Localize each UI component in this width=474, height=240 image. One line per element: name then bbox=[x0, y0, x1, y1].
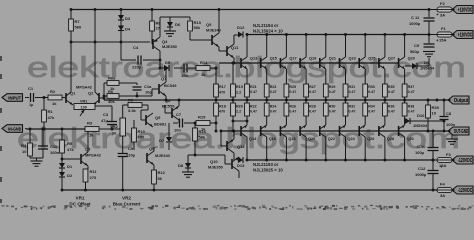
svg-text:Q20: Q20 bbox=[308, 137, 315, 141]
capacitor C1 bbox=[30, 93, 32, 102]
svg-text:OUT-GND: OUT-GND bbox=[454, 129, 469, 135]
wire Q16 collector bbox=[266, 137, 268, 160]
resistor R3 bbox=[85, 127, 99, 132]
diode D1 bbox=[59, 163, 65, 168]
resistor R26 bbox=[285, 100, 287, 103]
svg-text:3A: 3A bbox=[440, 193, 445, 198]
wire Q11 collector to D12 bbox=[233, 35, 235, 44]
wire R30 to Q22 emitter bbox=[325, 116, 327, 125]
svg-text:47k: 47k bbox=[48, 115, 55, 120]
wire R2 to Q1 base bbox=[62, 97, 66, 99]
svg-text:D2: D2 bbox=[67, 173, 73, 178]
svg-text:R37: R37 bbox=[408, 85, 415, 89]
transistor Q30 bbox=[398, 126, 400, 136]
svg-text:NJL21194 or: NJL21194 or bbox=[253, 23, 279, 28]
wire Q2 base to feedback node bbox=[99, 97, 104, 99]
resistor R23 bbox=[264, 84, 269, 97]
capacitor C5 bbox=[122, 136, 124, 153]
svg-text:10: 10 bbox=[432, 111, 437, 116]
wire Q11 emitter to base rail bbox=[233, 58, 235, 63]
svg-text:680: 680 bbox=[138, 135, 145, 140]
svg-text:C5: C5 bbox=[128, 146, 134, 151]
wire D9 branch bbox=[405, 65, 412, 67]
svg-text:47µ: 47µ bbox=[101, 118, 108, 123]
fuse F1 bbox=[429, 34, 437, 36]
resistor R12 bbox=[152, 170, 157, 184]
potentiometer VR1 bbox=[74, 104, 95, 110]
wire bottom output base rail bbox=[222, 130, 448, 132]
svg-text:R38: R38 bbox=[408, 105, 415, 109]
wire Q25 emitter bbox=[364, 69, 366, 84]
wire R33 to output rail bbox=[364, 97, 366, 100]
svg-text:1k: 1k bbox=[52, 101, 57, 106]
svg-text:R7: R7 bbox=[75, 19, 81, 24]
svg-text:270: 270 bbox=[90, 175, 97, 180]
svg-text:R5: R5 bbox=[67, 141, 73, 146]
svg-text:R6a: R6a bbox=[108, 76, 116, 81]
capacitor C8 bbox=[443, 100, 445, 116]
svg-text:MJE340: MJE340 bbox=[155, 153, 171, 158]
svg-text:0.47: 0.47 bbox=[289, 109, 296, 113]
capacitor C1a bbox=[133, 86, 142, 88]
svg-text:D1: D1 bbox=[67, 164, 73, 169]
svg-text:C 10: C 10 bbox=[417, 144, 426, 149]
wire R27 to output rail bbox=[305, 97, 307, 100]
transistor Q12 bbox=[226, 141, 228, 151]
svg-text:R14: R14 bbox=[200, 60, 208, 65]
wire D10 branch bbox=[404, 120, 405, 122]
svg-text:1000µ: 1000µ bbox=[415, 172, 427, 177]
transistor Q3 bbox=[80, 154, 82, 164]
svg-text:R32: R32 bbox=[349, 105, 356, 109]
wire R29 to output rail bbox=[325, 97, 327, 100]
fuse F4 bbox=[437, 187, 452, 192]
transistor Q19 bbox=[299, 58, 301, 68]
wire bottom rail bbox=[62, 189, 437, 191]
wire Q27 emitter bbox=[384, 69, 386, 84]
svg-text:0.47: 0.47 bbox=[368, 90, 375, 94]
diode D10 bbox=[405, 118, 410, 124]
wire Q3 collector to R3 node bbox=[87, 132, 89, 153]
wire Q5 base bbox=[141, 119, 146, 121]
wire R6 left bbox=[104, 95, 107, 97]
resistor R2 bbox=[48, 95, 62, 100]
wire R35 to output rail bbox=[384, 97, 386, 100]
wire Q9 collector to top rail bbox=[218, 10, 220, 34]
resistor R24 bbox=[266, 100, 268, 103]
wire Q19 collector bbox=[305, 35, 307, 58]
svg-text:Q13: Q13 bbox=[250, 57, 257, 61]
capacitor C7 bbox=[173, 122, 178, 124]
svg-text:Q19: Q19 bbox=[309, 57, 316, 61]
diode D13 bbox=[238, 157, 243, 163]
svg-text:NJL15024 × 10: NJL15024 × 10 bbox=[253, 29, 283, 34]
capacitor C11 column bbox=[42, 129, 44, 146]
transistor Q8 bbox=[171, 108, 173, 118]
svg-text:Q11: Q11 bbox=[231, 45, 239, 50]
wire Q13 collector bbox=[246, 35, 248, 58]
svg-text:1k: 1k bbox=[89, 133, 94, 138]
capacitor C3 column bbox=[111, 106, 113, 122]
wire R1 to gnd rail bbox=[43, 122, 45, 129]
transistor Q25 bbox=[358, 58, 360, 68]
svg-text:R31: R31 bbox=[349, 85, 356, 89]
wire R17 bottom bbox=[215, 97, 217, 100]
scan noise band bottom bbox=[2, 205, 474, 211]
svg-text:Output: Output bbox=[454, 98, 469, 104]
wire Q25 collector bbox=[364, 35, 366, 58]
wire Q21 collector bbox=[325, 35, 327, 58]
svg-text:10n: 10n bbox=[174, 128, 181, 133]
resistor R29 bbox=[323, 84, 328, 97]
svg-text:0.47: 0.47 bbox=[309, 90, 316, 94]
svg-text:+120VDC: +120VDC bbox=[458, 32, 473, 38]
svg-text:Q29: Q29 bbox=[408, 57, 415, 61]
svg-text:R35: R35 bbox=[388, 85, 395, 89]
transistor Q4 bbox=[151, 39, 153, 44]
resistor R10 bbox=[133, 120, 135, 128]
svg-text:0.47: 0.47 bbox=[388, 109, 395, 113]
svg-text:R2: R2 bbox=[50, 89, 56, 94]
svg-text:Q8: Q8 bbox=[165, 98, 171, 103]
svg-text:R29: R29 bbox=[329, 85, 336, 89]
svg-text:100n: 100n bbox=[446, 122, 456, 127]
svg-text:40k: 40k bbox=[108, 99, 115, 104]
resistor R27 bbox=[304, 84, 309, 97]
svg-text:220p: 220p bbox=[132, 65, 142, 70]
wire +V output rail bbox=[246, 34, 429, 36]
connector Output tag bbox=[448, 96, 469, 104]
svg-text:15A: 15A bbox=[439, 38, 446, 43]
resistor R38 bbox=[404, 100, 406, 103]
resistor R30 bbox=[325, 100, 327, 103]
wire R12 to bottom rail bbox=[153, 184, 155, 190]
svg-text:1k: 1k bbox=[201, 72, 206, 77]
transistor Q24 bbox=[339, 126, 341, 136]
wire Q23 emitter bbox=[345, 69, 347, 84]
svg-text:Q10: Q10 bbox=[210, 159, 218, 164]
wire R25 to output rail bbox=[285, 97, 287, 100]
svg-text:R18: R18 bbox=[219, 105, 226, 109]
diode D7 bbox=[168, 123, 170, 137]
diode D8 with ground bbox=[187, 155, 189, 163]
svg-text:-120VDC: -120VDC bbox=[458, 188, 473, 194]
wire R11 to bottom rail bbox=[85, 182, 87, 190]
svg-text:R27: R27 bbox=[309, 85, 316, 89]
wire R8 column bbox=[151, 10, 153, 40]
svg-text:R1: R1 bbox=[48, 109, 54, 114]
resistor R13 bbox=[189, 17, 191, 20]
ground near C9 bbox=[423, 51, 435, 53]
svg-text:+: + bbox=[440, 165, 443, 170]
capacitor C9 bbox=[428, 35, 430, 44]
svg-text:0.47: 0.47 bbox=[349, 109, 356, 113]
wire R38 to Q30 emitter bbox=[404, 116, 406, 125]
wire Q19 emitter bbox=[305, 69, 307, 84]
svg-text:R4: R4 bbox=[21, 143, 27, 148]
svg-text:NJL21193 or: NJL21193 or bbox=[253, 162, 279, 167]
svg-text:0.47: 0.47 bbox=[250, 90, 257, 94]
wire C5 down to bottom rail bbox=[122, 157, 124, 190]
svg-text:Q16: Q16 bbox=[269, 137, 276, 141]
svg-text:Q14: Q14 bbox=[249, 137, 257, 141]
capacitor C6 bbox=[183, 64, 185, 73]
wire Q8 emitter to C7 bbox=[178, 120, 180, 123]
svg-text:R34: R34 bbox=[368, 105, 375, 109]
wire Q9 emitter to Q11 base bbox=[218, 47, 220, 51]
svg-text:R36: R36 bbox=[388, 105, 395, 109]
svg-text:56k: 56k bbox=[194, 25, 201, 30]
diode D2 bbox=[61, 168, 63, 172]
resistor R33 bbox=[363, 84, 368, 97]
wire R13 to Q9 base bbox=[189, 32, 191, 40]
capacitor C11 bbox=[428, 10, 430, 18]
wire R15 right bbox=[210, 122, 216, 124]
transistor Q22 bbox=[319, 126, 321, 136]
wire input ground rail right part bbox=[99, 128, 121, 130]
svg-text:D12: D12 bbox=[237, 25, 245, 30]
wire R1 column bbox=[43, 98, 45, 111]
fuse F3 bbox=[433, 159, 437, 161]
svg-text:BD681: BD681 bbox=[154, 122, 167, 127]
svg-text:BC559: BC559 bbox=[162, 104, 175, 109]
wiper VR1 arrow bbox=[80, 110, 85, 117]
svg-text:Q24: Q24 bbox=[348, 137, 356, 141]
transistor Q26 bbox=[358, 126, 360, 136]
svg-text:Bias Current: Bias Current bbox=[113, 202, 141, 207]
resistor R4 bbox=[28, 143, 33, 156]
svg-text:C12: C12 bbox=[418, 166, 426, 171]
ground below R4 C11 bbox=[31, 160, 43, 162]
svg-text:10p: 10p bbox=[145, 90, 152, 95]
svg-text:D4: D4 bbox=[125, 27, 131, 32]
svg-text:R24: R24 bbox=[270, 105, 277, 109]
wire R5 to D1 bbox=[61, 153, 63, 163]
svg-text:0.47: 0.47 bbox=[289, 90, 296, 94]
wire C1a bottom bbox=[136, 92, 138, 96]
wire D5 C6 R14 branch bbox=[160, 67, 164, 69]
wire Q8 collector bbox=[178, 100, 180, 106]
wire Q22 collector bbox=[325, 137, 327, 160]
svg-text:0.47: 0.47 bbox=[349, 90, 356, 94]
diode D4 bbox=[118, 26, 124, 31]
resistor R8 bbox=[150, 21, 155, 31]
connector -120VDC tag bottom bbox=[452, 186, 473, 194]
wire Q4 collector column bbox=[159, 51, 161, 68]
wire R22 to Q14 emitter bbox=[246, 116, 248, 125]
wire R18 bottom bbox=[215, 116, 217, 131]
resistor R11 bbox=[83, 169, 88, 182]
svg-text:VR1: VR1 bbox=[76, 196, 85, 201]
svg-text:Q17: Q17 bbox=[289, 57, 296, 61]
wire IN-GND tag bbox=[2, 125, 23, 133]
wire R31 to output rail bbox=[345, 97, 347, 100]
svg-text:0.47: 0.47 bbox=[270, 109, 277, 113]
resistor R32 bbox=[345, 100, 347, 103]
svg-text:D7: D7 bbox=[159, 138, 165, 143]
svg-text:0.47: 0.47 bbox=[329, 109, 336, 113]
wire Q8 base bbox=[165, 112, 172, 114]
svg-text:100: 100 bbox=[81, 106, 87, 110]
wire C3 down bbox=[111, 125, 113, 130]
wire Q7 emitter bbox=[165, 96, 167, 100]
svg-text:2.2: 2.2 bbox=[236, 91, 241, 95]
resistor R37 bbox=[402, 84, 407, 97]
transistor Q15 bbox=[260, 58, 262, 68]
wire R28 to Q20 emitter bbox=[305, 116, 307, 125]
wire R36 to Q28 emitter bbox=[384, 116, 386, 125]
svg-text:470: 470 bbox=[219, 110, 225, 114]
svg-text:C11: C11 bbox=[50, 144, 58, 149]
resistor R39 bbox=[427, 100, 429, 105]
transistor Q14 bbox=[240, 126, 242, 136]
resistor R15 bbox=[196, 121, 210, 126]
svg-text:Q25: Q25 bbox=[368, 57, 375, 61]
svg-text:Q12: Q12 bbox=[237, 144, 245, 149]
svg-text:C9: C9 bbox=[414, 43, 420, 48]
transistor Q6 bbox=[146, 153, 148, 163]
svg-text:Q26: Q26 bbox=[367, 137, 374, 141]
wire R21 to output rail bbox=[246, 97, 248, 100]
svg-text:0.47: 0.47 bbox=[270, 90, 277, 94]
svg-text:1000µ: 1000µ bbox=[409, 21, 421, 26]
resistor R1 bbox=[42, 110, 47, 122]
scan mark left edge 0 bbox=[0, 56, 2, 61]
transistor Q23 bbox=[339, 58, 341, 68]
svg-text:MJE350: MJE350 bbox=[208, 165, 224, 170]
wire VR1 right end to C3 bbox=[95, 105, 112, 107]
wire D3/D4 column bbox=[120, 10, 122, 61]
wire Q12 base stub bbox=[221, 145, 227, 147]
transistor Q27 bbox=[378, 58, 380, 68]
transistor Q13 bbox=[240, 58, 242, 68]
svg-text:3A: 3A bbox=[440, 13, 445, 18]
resistor R16 bbox=[194, 123, 196, 128]
capacitor C12 bbox=[432, 159, 435, 162]
transistor Q10 bbox=[231, 159, 233, 169]
potentiometer VR2 bbox=[120, 118, 126, 136]
wire Q29 emitter bbox=[404, 69, 406, 84]
diode D9 bbox=[412, 63, 417, 69]
svg-text:F4: F4 bbox=[440, 182, 445, 187]
wire R26 to Q18 emitter bbox=[285, 116, 287, 125]
svg-text:C7: C7 bbox=[176, 112, 182, 117]
svg-text:47k: 47k bbox=[67, 147, 74, 152]
wire C4 branch bbox=[121, 59, 136, 61]
svg-text:C4: C4 bbox=[133, 45, 139, 50]
svg-text:D5: D5 bbox=[165, 60, 171, 65]
wire R34 to Q26 emitter bbox=[364, 116, 366, 125]
svg-text:R17: R17 bbox=[219, 85, 226, 89]
svg-text:2k: 2k bbox=[112, 131, 117, 136]
svg-text:C1: C1 bbox=[28, 86, 34, 91]
resistor R18 bbox=[215, 100, 217, 103]
svg-text:Q5: Q5 bbox=[155, 115, 161, 120]
svg-text:R39: R39 bbox=[432, 105, 440, 110]
svg-text:Q30: Q30 bbox=[407, 137, 414, 141]
svg-text:0.47: 0.47 bbox=[250, 109, 257, 113]
svg-text:Q9: Q9 bbox=[206, 22, 212, 27]
svg-text:+120VDC: +120VDC bbox=[458, 7, 473, 13]
svg-text:R9: R9 bbox=[128, 98, 134, 103]
wire Q26 collector bbox=[364, 137, 366, 160]
wire Q3 emitter to R11 bbox=[87, 166, 89, 169]
resistor R25 bbox=[284, 84, 289, 97]
svg-text:0.47: 0.47 bbox=[309, 109, 316, 113]
wire R24 to Q16 emitter bbox=[266, 116, 268, 125]
svg-text:MJE350: MJE350 bbox=[162, 44, 178, 49]
fuse F2 bbox=[429, 9, 437, 11]
connector -120VDC tag bbox=[452, 156, 473, 164]
svg-text:INPUT: INPUT bbox=[8, 95, 21, 101]
resistor R14 bbox=[196, 66, 210, 71]
svg-text:R6: R6 bbox=[108, 89, 114, 94]
wire Q15 emitter bbox=[266, 69, 268, 84]
resistor R35 bbox=[383, 84, 388, 97]
resistor R9 bbox=[128, 103, 142, 108]
svg-text:560µ: 560µ bbox=[410, 49, 420, 54]
svg-text:D8: D8 bbox=[178, 163, 184, 168]
wire D9 to ground bbox=[428, 58, 430, 66]
svg-text:0.47: 0.47 bbox=[408, 90, 415, 94]
svg-text:Q1: Q1 bbox=[70, 91, 76, 96]
transistor Q5 bbox=[145, 115, 147, 125]
scan mark left edge 1 bbox=[0, 74, 2, 79]
svg-text:C 11: C 11 bbox=[411, 15, 420, 20]
resistor R4 column bbox=[29, 129, 31, 143]
connector OUT-GND tag bbox=[448, 127, 469, 135]
svg-text:100n: 100n bbox=[50, 150, 60, 155]
resistor R19 bbox=[232, 63, 234, 84]
wire R6a right bbox=[119, 82, 137, 84]
wire input ground rail bbox=[26, 128, 85, 130]
svg-text:R26: R26 bbox=[289, 105, 296, 109]
transistor Q17 bbox=[279, 58, 281, 68]
scan mark left edge 4 bbox=[0, 177, 2, 182]
svg-text:BC549: BC549 bbox=[164, 83, 177, 88]
svg-text:MPSA42: MPSA42 bbox=[76, 85, 93, 90]
resistor R20 bbox=[232, 100, 234, 103]
svg-text:Q21: Q21 bbox=[329, 57, 336, 61]
svg-text:F1: F1 bbox=[441, 26, 446, 31]
wire input bbox=[25, 97, 29, 99]
svg-text:D10: D10 bbox=[417, 113, 425, 118]
svg-text:1µ: 1µ bbox=[29, 103, 33, 107]
wire tee to D6 and R13 bbox=[160, 16, 190, 18]
svg-text:MPSA42: MPSA42 bbox=[85, 153, 102, 158]
wire -V output rail bbox=[246, 159, 433, 161]
svg-text:10n: 10n bbox=[181, 73, 188, 78]
diode D3 bbox=[118, 15, 124, 20]
svg-text:Q28: Q28 bbox=[387, 137, 394, 141]
wire R4 to ground bbox=[29, 156, 31, 158]
resistor R31 bbox=[343, 84, 348, 97]
svg-text:1N5404: 1N5404 bbox=[413, 123, 428, 128]
transistor Q29 bbox=[398, 58, 400, 68]
wire Q29 collector bbox=[404, 35, 406, 58]
resistor R5 bbox=[60, 140, 65, 153]
scan mark left edge 2 bbox=[0, 108, 2, 113]
svg-text:56: 56 bbox=[158, 176, 163, 181]
wire driver sub-rail bbox=[71, 41, 150, 43]
svg-text:470: 470 bbox=[219, 91, 225, 95]
svg-text:R33: R33 bbox=[368, 85, 375, 89]
connector +120VDC tag 2 bbox=[452, 31, 473, 39]
wire Q4 emitter to y17 tee bbox=[159, 17, 161, 37]
svg-text:C3: C3 bbox=[103, 112, 109, 117]
transistor Q9 bbox=[211, 35, 213, 45]
svg-text:VR2: VR2 bbox=[122, 196, 131, 201]
